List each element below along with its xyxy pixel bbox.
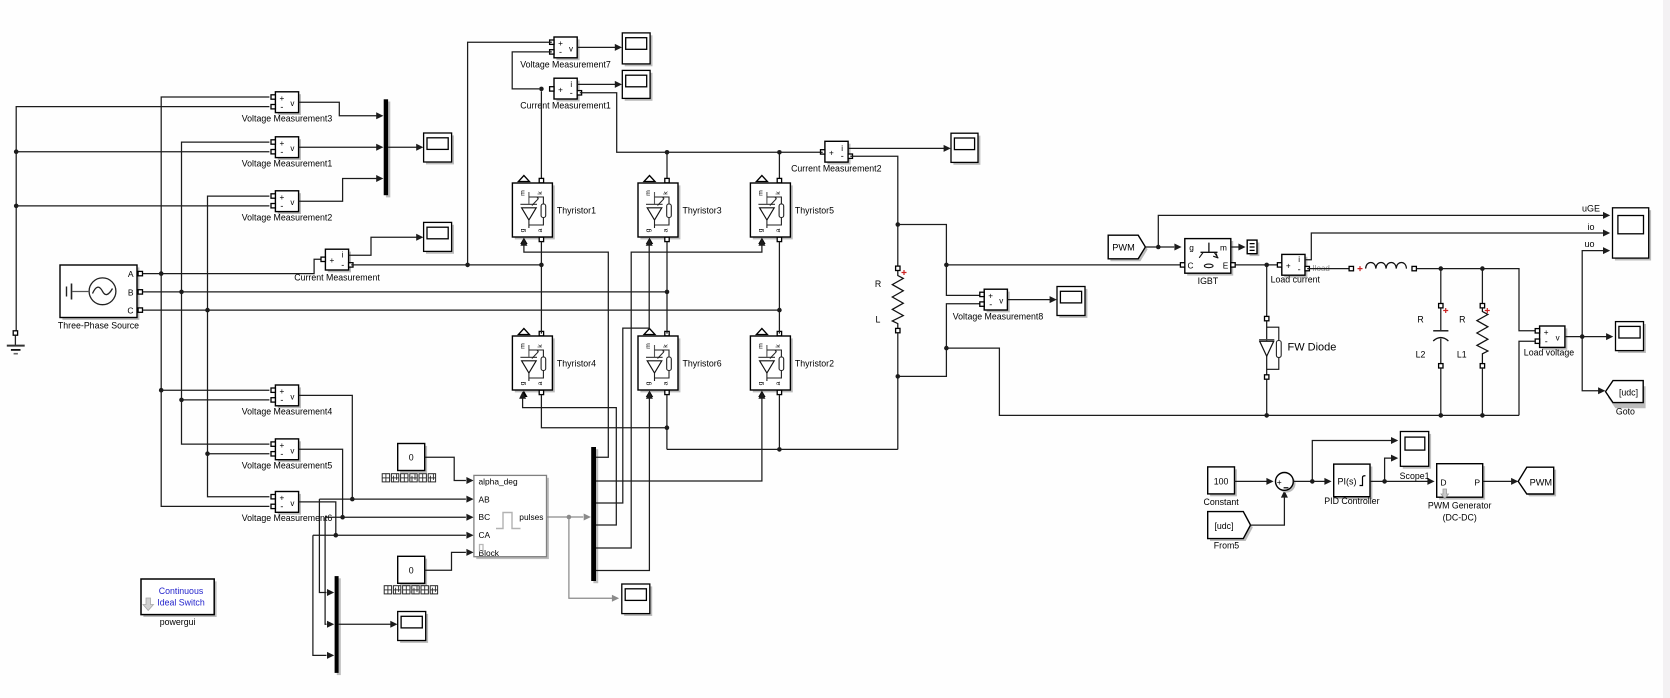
scope S4 (thyristor current): [622, 70, 652, 100]
voltage sensor VM2: [242, 191, 333, 223]
svg-text:CA: CA: [479, 530, 491, 540]
svg-text:Ideal Switch: Ideal Switch: [157, 598, 205, 608]
thyristor Q5: [750, 176, 834, 245]
svg-text:PWM: PWM: [1530, 477, 1552, 487]
wire neutral to Voltage Measurement2 minus: [16, 205, 269, 207]
svg-text:i: i: [1298, 255, 1300, 264]
node A-VM4+ junction: [159, 388, 164, 393]
wire CM2 minus to load R top: [850, 156, 898, 266]
svg-text:uo: uo: [1584, 239, 1594, 249]
node AB junction: [350, 497, 355, 502]
svg-text:pulses: pulses: [519, 512, 543, 522]
svg-text:[udc]: [udc]: [1214, 521, 1233, 531]
wire CM i output to scope: [349, 234, 424, 256]
svg-text:R: R: [1459, 315, 1465, 325]
wire cathode bus into CM2 plus: [820, 151, 822, 153]
svg-text:g: g: [519, 228, 526, 232]
node top / R branch: [1480, 266, 1485, 271]
wire dc+ to IGBT collector node: [898, 225, 947, 265]
PWM generator U4: [1428, 464, 1492, 523]
wire phase A from source to Current Measurement plus: [143, 259, 321, 273]
svg-text:m: m: [519, 343, 526, 349]
mux M2 (line voltages): [335, 576, 341, 675]
svg-text:v: v: [290, 144, 294, 153]
svg-text:uGE: uGE: [1582, 204, 1600, 214]
wire VM7 minus to thyristor1 cathode node: [512, 52, 552, 89]
svg-text:Block: Block: [479, 548, 500, 558]
svg-text:Load voltage: Load voltage: [1524, 348, 1574, 358]
wire freewheel diode top: [1266, 265, 1268, 316]
svg-text:0: 0: [409, 566, 414, 576]
wire phase-B tap vertical (VM1+ / B line / VM4- / VM5+): [182, 142, 270, 444]
scope S11 (line voltages): [398, 612, 428, 643]
wire PWM from-tag to IGBT gate: [1145, 244, 1181, 251]
wire IGBT E to load current: [1235, 264, 1279, 266]
svg-text:a: a: [537, 228, 544, 232]
svg-text:g: g: [1189, 243, 1194, 253]
voltage sensor VM7: [520, 37, 611, 70]
svg-text:Voltage Measurement5: Voltage Measurement5: [242, 461, 333, 471]
svg-text:Voltage Measurement7: Voltage Measurement7: [520, 60, 611, 70]
wire CM2 i output to scope: [848, 145, 951, 152]
wire uo to big scope: [1582, 247, 1610, 337]
svg-text:k: k: [775, 191, 782, 195]
wire mux M1 to scope: [388, 144, 423, 151]
wire load current i to io scope: [1305, 230, 1610, 260]
three-phase source V1: [58, 265, 143, 331]
svg-text:-: -: [1545, 336, 1548, 346]
svg-text:alpha_deg: alpha_deg: [479, 477, 518, 487]
svg-text:Thyristor5: Thyristor5: [795, 206, 834, 216]
wire VM8 output to scope: [1007, 296, 1056, 303]
wire pulses to scope (gray): [569, 517, 619, 602]
svg-text:g: g: [757, 228, 764, 232]
scope S10 (pulses): [622, 584, 652, 616]
svg-text:-: -: [989, 299, 992, 309]
wire IGBT m to terminator: [1231, 244, 1246, 251]
wire constant0 to alpha_deg input: [425, 457, 474, 484]
voltage sensor VM1: [242, 137, 333, 169]
voltage sensor VM4: [242, 385, 333, 417]
svg-text:Current Measurement2: Current Measurement2: [791, 164, 882, 174]
wire thyristor4 anode to bus: [541, 394, 667, 427]
PID controller U3: [1324, 464, 1379, 506]
svg-text:A: A: [128, 269, 134, 279]
thyristor Q3: [638, 176, 722, 245]
subsystem U5 (6-pulse generator): [474, 475, 549, 559]
svg-text:v: v: [290, 446, 294, 455]
node PID output fanout: [1382, 479, 1387, 484]
node PWM gate junction: [1156, 245, 1161, 250]
node VM8 minus net: [944, 346, 949, 351]
svg-text:PI(s): PI(s): [1338, 477, 1357, 487]
svg-text:m: m: [645, 343, 652, 349]
wire B tap to Voltage Measurement4 minus: [182, 399, 270, 401]
wire anode bus: [667, 448, 898, 450]
wire BC row to pulse generator: [325, 514, 474, 521]
svg-text:g: g: [645, 381, 652, 385]
svg-text:m: m: [1220, 243, 1227, 253]
svg-text:k: k: [663, 344, 670, 348]
wire load current out to inductor: [1307, 268, 1349, 270]
node freewheel junction: [1264, 263, 1269, 268]
scope S7 (load voltage): [1616, 322, 1646, 353]
wire VM5 output to BC row: [299, 449, 343, 517]
series RL load (rectifier): [875, 266, 907, 333]
svg-text:Continuous: Continuous: [159, 586, 204, 596]
scope S2 (phase A current): [424, 222, 454, 253]
scope S9 (Scope1): [1400, 432, 1431, 481]
svg-text:v: v: [290, 392, 294, 401]
svg-text:v: v: [290, 499, 294, 508]
wire CM1 i output to scope: [577, 81, 622, 88]
current sensor CM1: [520, 78, 611, 110]
wire PID output to Scope1 input2: [1385, 455, 1399, 482]
wire inductor to load top node: [1417, 269, 1535, 331]
svg-text:+: +: [1286, 262, 1291, 271]
node top / C branch: [1439, 266, 1444, 271]
scope S3 (thyristor voltage): [622, 33, 652, 66]
wire thyristor3 anode to thyristor6 cathode: [666, 241, 668, 333]
current sensor CM3 (Load current): [1271, 254, 1330, 284]
capacitor C1 branch (R L2): [1416, 269, 1449, 416]
ground G1: [7, 331, 25, 354]
node B bridge junction: [665, 290, 670, 295]
wire constant to sum: [1235, 478, 1274, 485]
wire load voltage minus to bottom bus: [1519, 341, 1535, 415]
wire collector net to VM8 plus: [946, 265, 982, 296]
node A-tap junction: [159, 271, 164, 276]
svg-text:v: v: [290, 99, 294, 108]
node BC junction: [340, 515, 345, 520]
wire thyristor1 anode to thyristor4 cathode: [540, 241, 542, 333]
wire CA row to pulse generator: [313, 532, 474, 539]
svg-text:(DC-DC): (DC-DC): [1443, 513, 1477, 523]
wire gate pulse 4 to thyristor4: [519, 392, 616, 526]
wire gate pulse 1 to thyristor1: [520, 239, 608, 458]
svg-text:D: D: [1440, 478, 1446, 488]
goto tag udc: [1606, 381, 1646, 417]
demux D1 (gate pulses): [591, 447, 598, 583]
node B-VM4- junction: [179, 398, 184, 403]
goto tag PWM: [1518, 467, 1556, 496]
wire From5 to sum minus: [1251, 490, 1288, 525]
svg-text:Current Measurement: Current Measurement: [294, 273, 380, 283]
svg-text:0: 0: [409, 453, 414, 463]
constant K3 (0, block): [398, 556, 427, 585]
node cathode bus / thyristor3: [665, 150, 670, 155]
svg-text:v: v: [1556, 334, 1560, 343]
svg-text:Voltage Measurement1: Voltage Measurement1: [242, 159, 333, 169]
wire C tap to Voltage Measurement5 minus: [208, 453, 270, 455]
svg-text:-: -: [280, 201, 283, 211]
svg-text:-: -: [280, 502, 283, 512]
wire uGE to scope: [1158, 212, 1610, 247]
wire mux M2 to scope: [339, 621, 398, 628]
node neutral-VM1minus junction: [14, 149, 19, 154]
node dc+ junction: [896, 222, 901, 227]
svg-text:B: B: [128, 287, 134, 297]
svg-text:L2: L2: [1416, 350, 1426, 360]
wire thyristor6 anode down: [666, 394, 668, 449]
wire constant0b to Block input: [425, 549, 474, 570]
diode D1 (FW Diode): [1259, 316, 1336, 379]
node B-tap junction: [179, 290, 184, 295]
sum S+- U2: [1276, 473, 1296, 493]
svg-text:IGBT: IGBT: [1198, 276, 1219, 286]
node sum output fanout: [1310, 479, 1315, 484]
svg-text:Thyristor3: Thyristor3: [683, 206, 722, 216]
wire PWM generator to goto tag: [1483, 478, 1519, 485]
wire AB down to mux M2 input1: [319, 499, 334, 596]
resistor R2 branch (R L1): [1457, 269, 1490, 416]
svg-text:PWM Generator: PWM Generator: [1428, 501, 1492, 511]
wire phase B from source to thyristor3/6 node: [143, 291, 667, 293]
voltage sensor VM8: [953, 289, 1044, 321]
thyristor Q6: [638, 329, 722, 398]
svg-text:k: k: [775, 344, 782, 348]
svg-text:Goto: Goto: [1616, 407, 1635, 417]
svg-text:-: -: [559, 47, 562, 57]
svg-text:-: -: [280, 147, 283, 157]
svg-text:-: -: [570, 88, 573, 98]
node anode bus / thyristor2: [777, 447, 782, 452]
svg-text:Thyristor4: Thyristor4: [557, 359, 596, 369]
wire A tap to Voltage Measurement4 plus: [161, 389, 269, 391]
svg-text:-: -: [841, 151, 844, 161]
scope S6 (dc voltage): [1057, 287, 1087, 318]
node neutral-VM2minus junction: [14, 204, 19, 209]
wire AB row to pulse generator: [319, 496, 473, 503]
wire VM1 output to mux input 2: [299, 144, 384, 151]
scope S5 (dc current): [951, 133, 980, 165]
node cathode bus / thyristor5: [777, 150, 782, 155]
wire ground/neutral net from Voltage Measurement3 minus down to ground: [16, 107, 269, 331]
thyristor Q2: [750, 329, 834, 398]
wire gate pulse 3 to thyristor3: [596, 239, 653, 504]
svg-text:PWM: PWM: [1112, 242, 1134, 252]
svg-text:Scope1: Scope1: [1400, 471, 1430, 481]
wire thyristor5 cathode to bus: [778, 152, 780, 181]
wire dc- to bottom bus: [946, 348, 1519, 415]
svg-text:-: -: [1298, 264, 1301, 274]
voltage sensor VM3: [242, 92, 333, 124]
svg-text:FW Diode: FW Diode: [1288, 342, 1337, 354]
svg-text:a: a: [537, 381, 544, 385]
wire gate pulse 5 to thyristor5: [596, 239, 765, 549]
svg-text:m: m: [519, 190, 526, 196]
svg-text:-: -: [280, 395, 283, 405]
svg-text:powergui: powergui: [160, 617, 196, 627]
svg-text:Voltage Measurement4: Voltage Measurement4: [242, 407, 333, 417]
wire sum output to Scope1 input1: [1312, 437, 1398, 481]
current sensor CM2: [791, 141, 882, 173]
svg-text:-: -: [280, 102, 283, 112]
svg-text:a: a: [663, 381, 670, 385]
node thyristor1 cathode / CM1 plus: [539, 87, 544, 92]
node bottom bus / FW diode: [1264, 413, 1269, 418]
wire phase-C tap vertical (VM2+ / C line / VM5- / VM6+): [208, 196, 270, 497]
svg-text:g: g: [645, 228, 652, 232]
node bottom bus / R branch: [1480, 413, 1485, 418]
wire VM4 output to AB row: [299, 395, 353, 499]
svg-text:m: m: [757, 190, 764, 196]
svg-text:Voltage Measurement2: Voltage Measurement2: [242, 213, 333, 223]
wire thyristor5 anode to thyristor2 cathode: [778, 241, 780, 333]
svg-text:k: k: [537, 191, 544, 195]
wire thyristor2 anode to bus: [778, 394, 780, 449]
wire collector net to IGBT C: [946, 264, 1182, 266]
svg-text:m: m: [645, 190, 652, 196]
svg-text:+: +: [558, 86, 563, 95]
node bridge A / thyristor1 anode: [539, 263, 544, 268]
wire CM1 minus to cathode bus: [580, 93, 821, 153]
wire thyristor1 cathode up to CM1: [540, 91, 542, 181]
node C-VM5- junction: [205, 451, 210, 456]
svg-text:-: -: [341, 260, 344, 270]
svg-text:L1: L1: [1457, 350, 1467, 360]
svg-text:v: v: [290, 198, 294, 207]
wire gate pulse 2 to thyristor2: [596, 392, 765, 482]
scope S1 (phase voltages): [424, 133, 454, 164]
svg-text:m: m: [757, 343, 764, 349]
wire PID to PWM generator: [1370, 478, 1435, 485]
wire sum to PID: [1293, 478, 1331, 485]
wire VM2 output to mux input 3: [299, 175, 384, 201]
thyristor Q1: [512, 176, 596, 245]
svg-text:+: +: [330, 256, 335, 265]
wire RL bottom to VM8 minus net: [898, 348, 947, 376]
svg-text:v: v: [999, 297, 1003, 306]
svg-text:a: a: [663, 228, 670, 232]
svg-text:L: L: [876, 315, 881, 325]
label block switch (CJK): [384, 586, 437, 594]
scope S8 (uGE io uo): [1582, 204, 1651, 261]
wire load voltage output: [1565, 333, 1613, 340]
svg-text:Load current: Load current: [1271, 275, 1321, 285]
svg-text:a: a: [775, 228, 782, 232]
node bottom bus / C branch: [1439, 413, 1444, 418]
svg-text:k: k: [537, 344, 544, 348]
label alpha input (CJK): [382, 474, 435, 482]
svg-text:Thyristor6: Thyristor6: [683, 359, 722, 369]
voltage sensor VM5: [242, 439, 333, 471]
wire VM8 minus stub: [946, 304, 982, 348]
wire to goto udc: [1582, 337, 1605, 395]
voltage sensor VM6: [242, 492, 333, 524]
wire thyristor3 cathode to bus: [666, 152, 668, 181]
svg-text:PID Controller: PID Controller: [1324, 496, 1379, 506]
svg-text:g: g: [519, 381, 526, 385]
node C bridge junction: [777, 308, 782, 313]
svg-text:C: C: [127, 306, 133, 316]
node T4a-T6a junction: [665, 425, 670, 430]
constant K1 (100): [1203, 467, 1239, 507]
node C-tap junction: [205, 308, 210, 313]
wire VM7 output to scope: [577, 44, 622, 51]
wire CA down to mux M2 input3: [313, 535, 334, 659]
wire CM minus to bridge A node: [351, 264, 541, 266]
thyristor Q4: [512, 329, 596, 398]
wire VM7 plus down to bridge A line: [468, 42, 552, 265]
node pulses fanout (gray): [567, 515, 572, 520]
svg-text:g: g: [757, 381, 764, 385]
svg-text:[udc]: [udc]: [1619, 387, 1638, 397]
svg-text:Constant: Constant: [1203, 497, 1239, 507]
wire BC down to mux M2 input2: [325, 517, 334, 628]
from tag PWM: [1108, 235, 1147, 261]
svg-text:+: +: [829, 149, 834, 158]
svg-text:v: v: [569, 44, 573, 53]
svg-text:From5: From5: [1214, 541, 1240, 551]
wire VM3 output to mux input 1: [299, 102, 384, 119]
svg-text:AB: AB: [479, 495, 491, 505]
svg-text:i: i: [342, 251, 344, 260]
svg-text:Three-Phase Source: Three-Phase Source: [58, 321, 139, 331]
node IGBT collector net: [944, 263, 949, 268]
wire freewheel diode bottom to bus: [1266, 379, 1268, 415]
inductor L3 (smoothing): [1349, 262, 1416, 271]
svg-text:100: 100: [1214, 477, 1229, 487]
wire phase C from source to thyristor5/2 node: [143, 309, 780, 311]
node CA junction: [334, 533, 339, 538]
node RL bottom junction: [896, 374, 901, 379]
constant K2 (0, alpha): [398, 444, 427, 473]
mux M1 (phase voltages): [384, 99, 391, 197]
svg-text:Voltage Measurement6: Voltage Measurement6: [242, 513, 333, 523]
svg-text:R: R: [1417, 315, 1423, 325]
svg-text:+: +: [1277, 477, 1282, 487]
wire phase-A tap vertical (VM3+ / A line / VM4+ / VM6-): [161, 97, 269, 506]
wire VM6 output to CA row: [299, 502, 336, 535]
wire pulses output (gray): [547, 514, 591, 521]
IGBT Q7: [1180, 239, 1235, 286]
svg-text:P: P: [1474, 478, 1480, 488]
svg-text:BC: BC: [479, 512, 491, 522]
svg-text:Voltage Measurement3: Voltage Measurement3: [242, 114, 333, 124]
node load voltage fanout: [1580, 334, 1585, 339]
svg-text:Thyristor2: Thyristor2: [795, 359, 834, 369]
powergui block: [141, 579, 217, 627]
svg-text:Thyristor1: Thyristor1: [557, 206, 596, 216]
svg-text:k: k: [663, 191, 670, 195]
voltage sensor VM9 (Load voltage): [1524, 326, 1574, 358]
svg-text:-: -: [280, 449, 283, 459]
svg-text:Voltage Measurement8: Voltage Measurement8: [953, 312, 1044, 322]
svg-text:R: R: [875, 279, 881, 289]
current sensor CM: [294, 249, 380, 282]
svg-text:Current Measurement1: Current Measurement1: [520, 101, 611, 111]
svg-text:a: a: [775, 381, 782, 385]
wire neutral to Voltage Measurement1 minus: [16, 151, 269, 153]
wire load RL bottom down: [897, 333, 899, 449]
node VM7+ tap on A bridge line: [465, 263, 470, 268]
svg-text:C: C: [1188, 260, 1194, 270]
from tag From5 (udc): [1208, 512, 1253, 551]
wire gate pulse 6 to thyristor6: [596, 392, 653, 571]
terminator T1m: [1247, 240, 1259, 256]
svg-text:io: io: [1587, 222, 1594, 232]
svg-text:E: E: [1223, 260, 1229, 270]
